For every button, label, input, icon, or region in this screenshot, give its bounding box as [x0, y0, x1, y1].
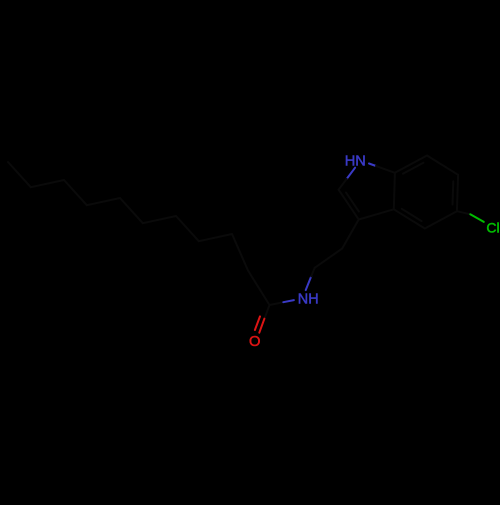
svg-text:Cl: Cl [486, 220, 499, 236]
svg-text:NH: NH [298, 292, 319, 308]
svg-text:O: O [249, 334, 261, 350]
svg-text:HN: HN [345, 153, 366, 169]
